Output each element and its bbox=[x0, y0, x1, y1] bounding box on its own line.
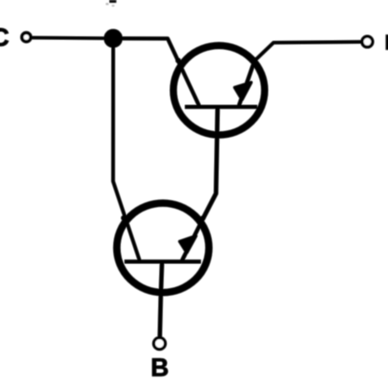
ink bleed at Q2 collector ring crossing bbox=[121, 215, 126, 220]
Q1 emitter lead bbox=[238, 59, 255, 108]
svg-text:E: E bbox=[385, 30, 388, 54]
svg-text:B: B bbox=[151, 354, 169, 378]
wire: Q1 emitter to E terminal bbox=[255, 42, 361, 61]
terminal B bbox=[154, 338, 165, 349]
Q1 base bar bbox=[185, 105, 257, 109]
Q1 emitter arrow bbox=[235, 83, 251, 100]
transistor Q1 circle bbox=[173, 46, 264, 135]
ink bleed at Q1 emitter ring crossing bbox=[252, 57, 257, 62]
wire: C terminal to junction bbox=[32, 36, 108, 40]
wire: Q1 base to Q2 emitter bbox=[203, 107, 218, 219]
Q2 emitter arrow bbox=[180, 236, 196, 253]
wire: Q2 base to B terminal bbox=[160, 262, 162, 338]
wire: junction to Q1 collector bbox=[120, 38, 200, 107]
ink bleed at Q1 collector ring crossing bbox=[176, 58, 181, 63]
wire: junction to Q2 collector bbox=[113, 46, 140, 261]
stray ink mark top edge bbox=[106, 0, 116, 7]
terminal C bbox=[22, 33, 31, 42]
Q2 base bar bbox=[125, 260, 201, 264]
ink bleed at Q2 emitter ring crossing bbox=[200, 216, 205, 221]
junction dot bbox=[104, 29, 123, 48]
Q2 emitter lead bbox=[181, 219, 203, 262]
transistor Q2 circle bbox=[117, 203, 209, 292]
terminal E bbox=[362, 37, 372, 47]
svg-text:C: C bbox=[0, 24, 9, 52]
